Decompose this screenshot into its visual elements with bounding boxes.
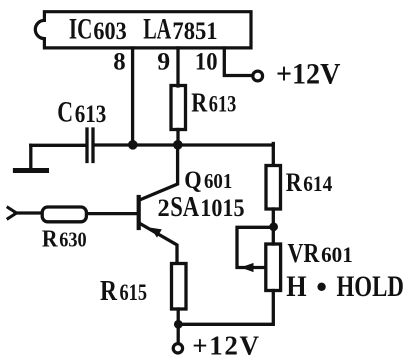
node B junction dot collector: [173, 140, 183, 150]
VR601 wiper arrowhead: [241, 263, 254, 272]
wire C613 left: [31, 144, 86, 147]
potentiometer VR601 body: [266, 244, 281, 291]
svg-text:10: 10: [195, 49, 218, 76]
wire R614 to VR601: [272, 209, 275, 244]
IC IC603 LA7851 box outline: [44, 12, 251, 48]
svg-text:Q: Q: [184, 167, 201, 194]
svg-text:630: 630: [59, 228, 86, 252]
svg-text:R: R: [42, 226, 58, 252]
wire pin 9 vertical: [176, 48, 179, 86]
wire pin 8 vertical: [131, 48, 134, 145]
wire node line horizontal: [94, 143, 273, 146]
transistor Q601 emitter: [140, 224, 177, 264]
node D junction dot bottom: [174, 320, 183, 329]
resistor R615 body: [172, 264, 187, 310]
svg-text:613: 613: [75, 99, 107, 128]
wire input to R630: [15, 211, 42, 214]
svg-text:IC: IC: [69, 13, 93, 46]
svg-text:8: 8: [113, 49, 125, 76]
svg-text:1015: 1015: [200, 195, 244, 222]
svg-text:613: 613: [209, 92, 237, 118]
svg-text:2: 2: [158, 195, 170, 222]
svg-text:614: 614: [303, 171, 332, 196]
wire R615 bottom to terminal: [177, 309, 180, 343]
svg-text:601: 601: [204, 169, 232, 193]
transistor Q601 emitter arrow (PNP): [150, 228, 162, 238]
svg-text:SA: SA: [170, 192, 199, 223]
terminal circle bottom +12V: [173, 344, 182, 353]
capacitor C613 plates: [87, 129, 93, 162]
svg-text:H: H: [286, 270, 306, 303]
wire right rail bottom: [178, 291, 273, 325]
svg-text:603: 603: [93, 18, 126, 45]
svg-text:HOLD: HOLD: [337, 270, 404, 303]
wire pin 10 to +12V terminal: [224, 48, 251, 76]
svg-text:+12V: +12V: [192, 331, 259, 360]
svg-text:R: R: [286, 167, 303, 197]
svg-text:R: R: [100, 276, 117, 307]
node C junction dot wiper: [269, 222, 278, 231]
IC notch: [35, 20, 44, 38]
wire R613 bottom: [176, 130, 179, 146]
input arrow: [8, 208, 17, 219]
wire right rail top: [272, 144, 275, 165]
svg-text:LA: LA: [143, 13, 171, 46]
wire R630 to base: [88, 212, 137, 215]
wire VR601 wiper: [237, 227, 274, 267]
svg-text:C: C: [57, 96, 73, 129]
resistor R630 body: [42, 207, 86, 222]
svg-text:601: 601: [321, 242, 353, 267]
svg-text:615: 615: [120, 280, 148, 306]
resistor R613 body: [171, 86, 186, 130]
transistor Q601 base bar: [137, 197, 141, 228]
svg-text:7851: 7851: [172, 18, 217, 45]
node A junction dot pin8: [128, 140, 138, 150]
svg-text:VR: VR: [288, 237, 321, 268]
transistor Q601 collector: [140, 145, 178, 200]
svg-text:R: R: [191, 87, 207, 117]
ground: [29, 145, 32, 169]
resistor R614 body: [266, 166, 281, 210]
terminal circle top +12V: [253, 71, 263, 81]
svg-text:9: 9: [157, 49, 170, 76]
svg-text:+12V: +12V: [276, 58, 341, 91]
